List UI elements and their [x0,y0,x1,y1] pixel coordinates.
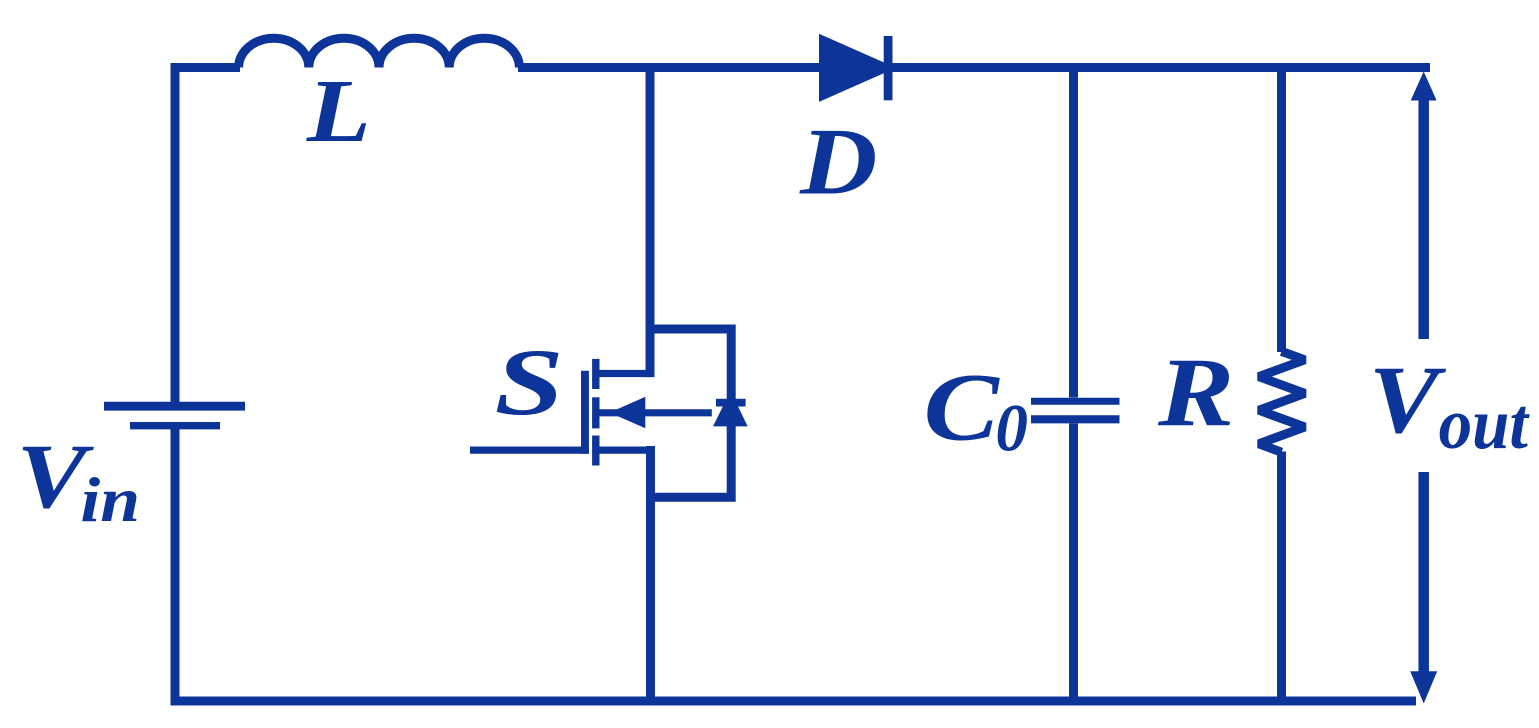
svg-text:C: C [924,353,1001,461]
svg-text:S: S [495,329,564,435]
svg-text:out: out [1439,384,1531,464]
svg-text:D: D [799,109,877,214]
svg-text:0: 0 [995,392,1028,466]
svg-text:R: R [1157,339,1234,448]
svg-text:V: V [1369,346,1447,453]
svg-text:in: in [80,465,140,535]
svg-text:L: L [306,61,371,161]
